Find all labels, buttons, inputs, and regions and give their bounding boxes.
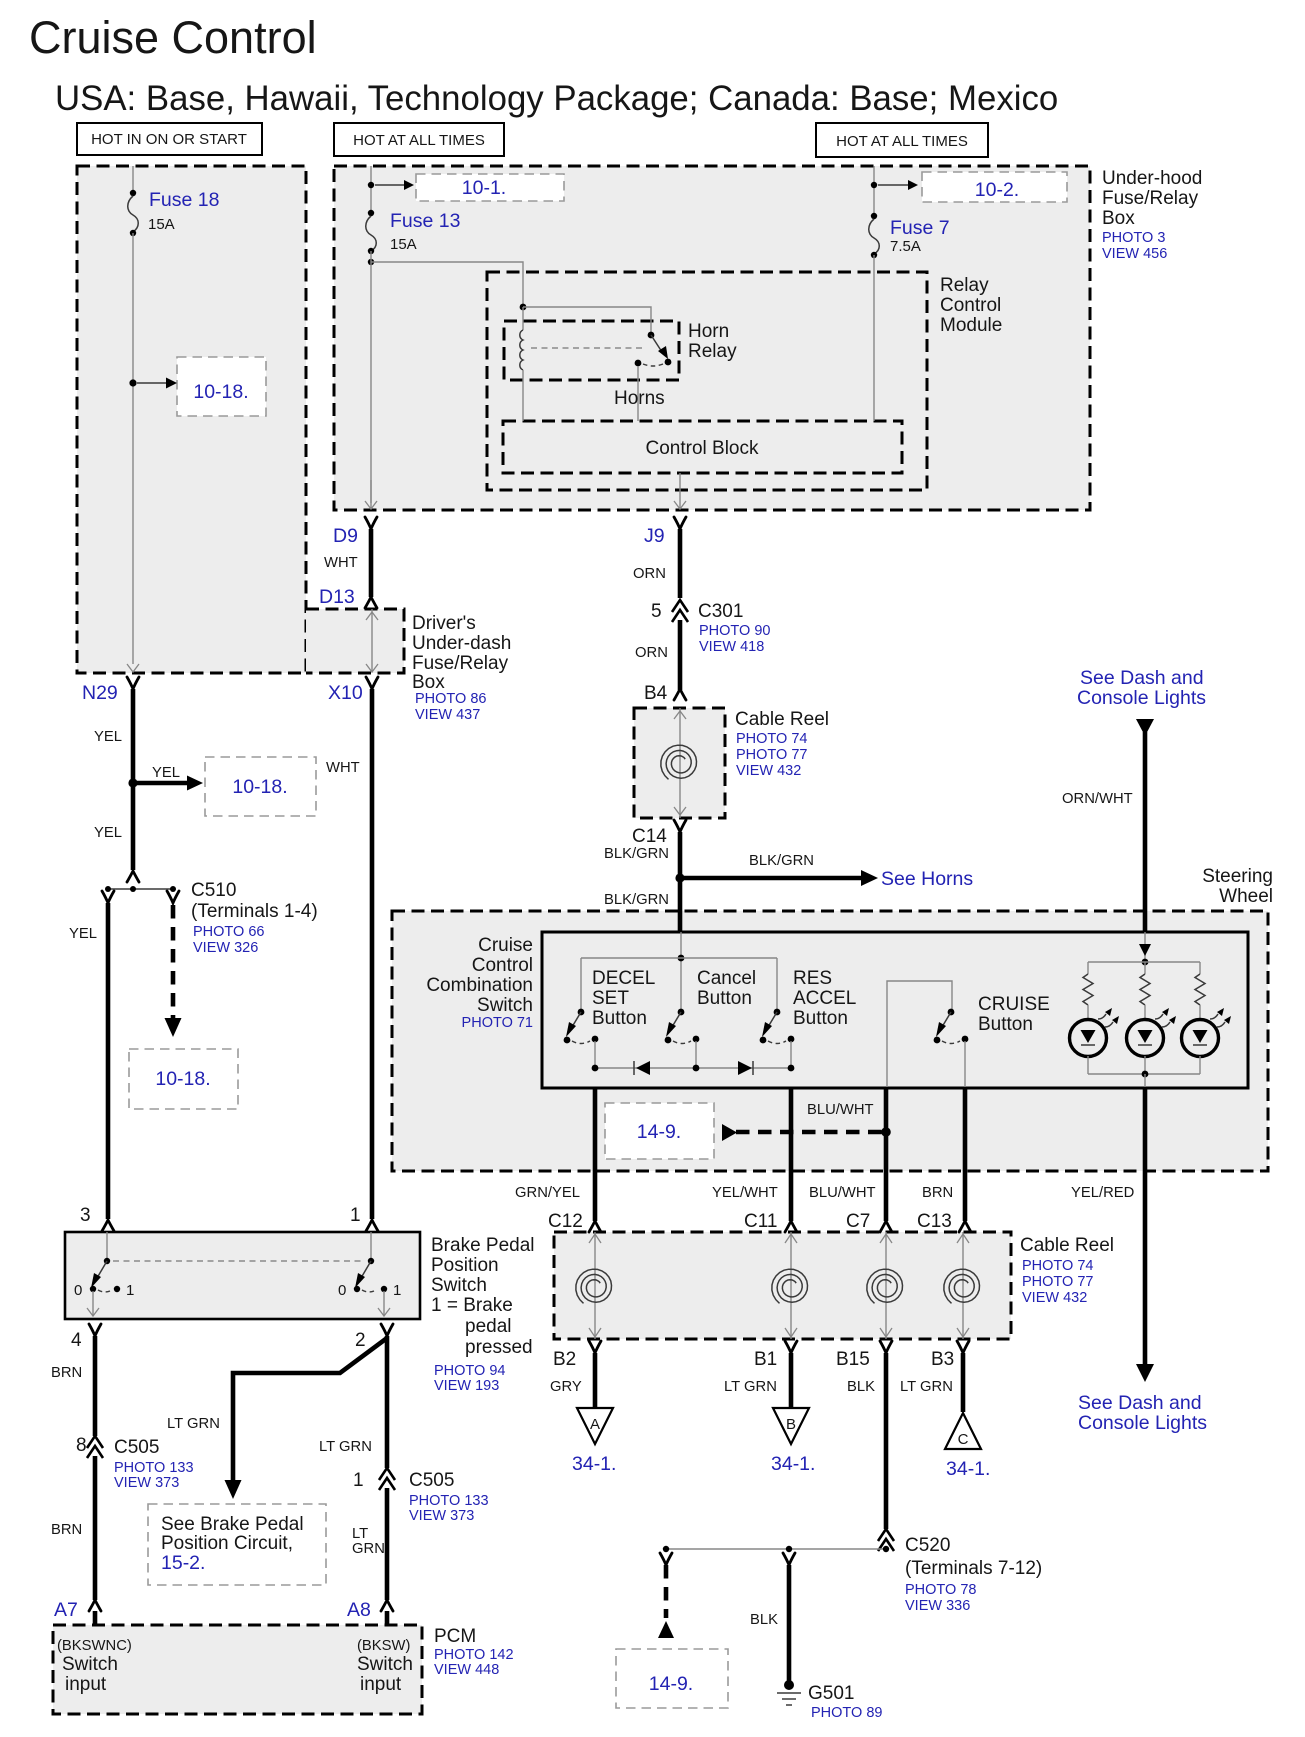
svg-text:Switch: Switch [477,995,533,1016]
label cable reel 1 [735,709,829,779]
svg-text:C520: C520 [905,1535,950,1556]
open arrow N29 exit [127,664,139,672]
svg-text:C505: C505 [409,1470,454,1491]
svg-text:Button: Button [592,1008,647,1029]
svg-text:pressed: pressed [465,1337,533,1358]
destination A [572,1408,616,1475]
node D9 [333,517,377,547]
svg-text:GRN/YEL: GRN/YEL [515,1185,580,1201]
wire 2 branch to brake pedal circuit [167,1338,387,1499]
wire fuse7 to control block [873,255,875,421]
svg-text:Position Circuit,: Position Circuit, [161,1533,293,1554]
wire C12 drop GRN/YEL [515,1088,601,1232]
brake switch pole 1 [338,1232,401,1316]
svg-text:5: 5 [651,601,662,622]
svg-text:PHOTO 3: PHOTO 3 [1102,230,1165,246]
svg-text:Cable Reel: Cable Reel [735,709,829,730]
header box HOT AT ALL TIMES right [816,123,988,157]
cable reel 1 wire [674,708,686,818]
svg-text:15-2.: 15-2. [161,1552,205,1574]
svg-text:Button: Button [697,988,752,1009]
svg-text:VIEW 373: VIEW 373 [114,1475,179,1491]
diode right [738,1061,753,1075]
ref box 14-9 steering [605,1103,714,1159]
arrow see horns [684,853,973,890]
wire B1 LT GRN [724,1353,791,1408]
svg-text:BRN: BRN [51,1522,82,1538]
fuse F13 [366,210,461,254]
relay actuation dashed link [531,347,643,349]
arrow to 10-2 [878,180,918,190]
svg-text:Switch: Switch [357,1654,413,1675]
svg-text:Relay: Relay [940,275,989,296]
svg-text:VIEW 373: VIEW 373 [409,1508,474,1524]
wire B2 GRY [550,1353,595,1408]
svg-text:PHOTO 86: PHOTO 86 [415,691,486,707]
wire into combo switch [678,932,685,1012]
ref box 10-1 [416,174,564,201]
wire C7 drop BLU/WHT [809,1088,892,1232]
svg-text:Control: Control [472,955,533,976]
connector C510 joint [105,871,318,956]
svg-text:Under-hood: Under-hood [1102,168,1202,189]
svg-text:See Horns: See Horns [881,868,973,890]
svg-text:Relay: Relay [688,341,737,362]
svg-text:C12: C12 [548,1211,583,1232]
svg-text:VIEW 326: VIEW 326 [193,940,258,956]
PCM box [53,1625,422,1714]
svg-text:Console Lights: Console Lights [1077,687,1206,709]
svg-text:DECEL: DECEL [592,968,655,989]
svg-text:J9: J9 [644,525,665,547]
svg-text:14-9.: 14-9. [637,1121,681,1143]
svg-text:1: 1 [393,1282,401,1299]
svg-text:Steering: Steering [1202,866,1273,887]
svg-text:C301: C301 [698,601,743,622]
svg-text:B1: B1 [754,1349,777,1370]
svg-text:BLK/GRN: BLK/GRN [604,892,669,908]
svg-text:10-18.: 10-18. [232,776,287,798]
wire fuse18 feed [132,166,134,192]
svg-text:PCM: PCM [434,1626,476,1647]
node 1 entry brake switch [350,1205,378,1231]
svg-text:Driver's: Driver's [412,613,476,634]
wire C14 down [604,832,685,932]
svg-text:C11: C11 [744,1211,777,1232]
wire N29 YEL [94,689,138,870]
control block box [503,421,902,473]
svg-text:B3: B3 [931,1349,954,1370]
svg-text:C: C [958,1431,969,1448]
wire C510-1 YEL to brake switch [69,891,114,1219]
svg-text:BLK/GRN: BLK/GRN [604,846,669,862]
svg-text:LT GRN: LT GRN [900,1379,953,1395]
svg-text:ORN: ORN [633,566,666,582]
switch output bus [592,1041,795,1071]
node B2 [553,1341,601,1370]
svg-text:BLK: BLK [847,1379,875,1395]
svg-text:PHOTO 77: PHOTO 77 [1022,1274,1093,1290]
svg-text:LT: LT [352,1526,368,1542]
cable reel 1 spiral [661,745,697,779]
ground G501 [777,1680,882,1721]
svg-text:PHOTO 77: PHOTO 77 [736,747,807,763]
svg-text:Under-dash: Under-dash [412,633,511,654]
svg-text:10-2.: 10-2. [975,179,1019,201]
svg-text:Horn: Horn [688,321,729,342]
cruise control combination switch box [542,932,1248,1088]
wire D9 exit [365,480,377,509]
svg-text:RES: RES [793,968,832,989]
svg-text:YEL: YEL [152,765,180,781]
svg-text:VIEW 432: VIEW 432 [736,763,801,779]
wire YEL/RED down [1071,1087,1154,1382]
svg-text:VIEW 448: VIEW 448 [434,1662,499,1678]
svg-text:USA: Base, Hawaii, Technology: USA: Base, Hawaii, Technology Package; C… [55,79,1058,118]
svg-text:B4: B4 [644,683,668,704]
svg-text:C13: C13 [917,1211,952,1232]
svg-text:HOT AT ALL TIMES: HOT AT ALL TIMES [836,133,968,150]
label combination switch [426,935,533,1031]
jumper 14-9 BLU/WHT dashed [722,1102,884,1141]
svg-text:input: input [360,1674,402,1695]
svg-text:Cruise: Cruise [478,935,533,956]
svg-text:ACCEL: ACCEL [793,988,856,1009]
label see dash and console lights top [1077,667,1206,709]
svg-text:8: 8 [76,1435,87,1456]
svg-text:Wheel: Wheel [1219,886,1273,907]
svg-text:Module: Module [940,315,1002,336]
svg-text:VIEW 193: VIEW 193 [434,1378,499,1394]
spiral 4 [944,1269,980,1303]
lamp return bus [1088,1056,1200,1087]
svg-text:YEL: YEL [69,926,97,942]
node B3 [931,1341,969,1370]
label cruise button [978,994,1050,1035]
wire to 14-9 dashed [658,1553,674,1638]
destination B [771,1408,815,1475]
node relay feed junction [520,304,527,311]
wire 2 lower [352,1488,387,1600]
svg-text:34-1.: 34-1. [771,1453,815,1475]
svg-text:Fuse 13: Fuse 13 [390,210,460,232]
arrow to 10-18 top [137,378,177,389]
node C14 [604,820,686,862]
node J9 [644,517,686,547]
node D13 [319,586,377,608]
svg-text:PHOTO 142: PHOTO 142 [434,1647,514,1663]
cable reel 2 wire C11-B1 [785,1232,797,1339]
svg-text:pedal: pedal [465,1316,512,1337]
svg-text:(BKSW): (BKSW) [357,1638,411,1654]
svg-text:YEL/WHT: YEL/WHT [712,1185,778,1201]
relay control module box [487,272,927,490]
svg-text:3: 3 [80,1205,91,1226]
svg-text:BLU/WHT: BLU/WHT [807,1102,874,1118]
relay coil [520,307,523,421]
wire C510-4 dashed to 10-18 low [165,891,182,1037]
svg-text:YEL: YEL [94,729,122,745]
svg-text:10-18.: 10-18. [155,1068,210,1090]
brake switch pole 3 [74,1232,134,1316]
spiral 1 [576,1269,612,1303]
LED lamp 3 [1182,1008,1232,1057]
wire junction to relay switch [523,307,651,335]
svg-text:PHOTO 74: PHOTO 74 [736,731,807,747]
ref box see brake pedal position circuit [148,1504,326,1585]
connector C520 [878,1529,1042,1614]
svg-text:YEL/RED: YEL/RED [1071,1185,1134,1201]
svg-text:SET: SET [592,988,629,1009]
svg-text:CRUISE: CRUISE [978,994,1050,1015]
svg-text:BLU/WHT: BLU/WHT [809,1185,876,1201]
cancel switch [665,1009,700,1044]
svg-text:PHOTO 94: PHOTO 94 [434,1363,505,1379]
wire fuse7 feed [871,166,877,215]
svg-text:See Dash and: See Dash and [1078,1392,1202,1414]
destination C [945,1413,990,1480]
wire fuse13 to horn relay [371,262,523,307]
svg-text:15A: 15A [148,216,175,233]
svg-text:PHOTO 74: PHOTO 74 [1022,1258,1093,1274]
node B15 [836,1341,892,1370]
svg-text:ORN/WHT: ORN/WHT [1062,791,1133,807]
svg-text:WHT: WHT [326,760,360,776]
svg-text:WHT: WHT [324,555,358,571]
node B1 [754,1341,797,1370]
header box HOT IN ON OR START [77,123,262,155]
svg-text:PHOTO 90: PHOTO 90 [699,623,770,639]
svg-text:Button: Button [793,1008,848,1029]
ref box 10-2 [922,172,1067,202]
svg-text:Cancel: Cancel [697,968,756,989]
svg-text:PHOTO 66: PHOTO 66 [193,924,264,940]
svg-text:0: 0 [338,1282,346,1299]
lamp feed [1088,932,1200,965]
svg-text:10-1.: 10-1. [462,177,506,199]
svg-text:14-9.: 14-9. [649,1673,693,1695]
svg-text:Switch: Switch [62,1654,118,1675]
wire control block to J9 [674,473,686,509]
node 3 entry brake switch [80,1205,114,1231]
svg-text:4: 4 [71,1330,82,1351]
label under-hood box [1102,168,1202,262]
node X10 [328,677,378,704]
svg-text:Control: Control [940,295,1001,316]
cable reel 2 wire C13-B3 [957,1232,969,1339]
svg-text:X10: X10 [328,682,363,704]
svg-text:1 = Brake: 1 = Brake [431,1295,513,1316]
spiral 3 [867,1269,903,1303]
label steering wheel [1202,866,1273,907]
wire 4 BRN [51,1336,95,1436]
svg-text:Switch: Switch [431,1275,487,1296]
svg-text:VIEW 418: VIEW 418 [699,639,764,655]
horn relay box [504,321,679,380]
svg-text:PHOTO 78: PHOTO 78 [905,1582,976,1598]
cable reel box 2 [554,1232,1011,1339]
label cable reel 2 [1020,1235,1114,1306]
svg-text:A8: A8 [347,1599,371,1621]
svg-text:34-1.: 34-1. [946,1458,990,1480]
svg-text:Fuse 18: Fuse 18 [149,189,219,211]
svg-text:BLK: BLK [750,1612,778,1628]
svg-text:VIEW 432: VIEW 432 [1022,1290,1087,1306]
svg-text:G501: G501 [808,1683,854,1704]
header box HOT AT ALL TIMES left [334,123,504,156]
svg-text:10-18.: 10-18. [193,381,248,403]
wire B3 LT GRN [900,1353,963,1412]
node 2 [355,1324,393,1351]
label horn relay [688,321,737,362]
connector C505 pin 1 [353,1468,489,1524]
svg-text:See Brake Pedal: See Brake Pedal [161,1514,304,1535]
LED lamp 2 [1127,1008,1177,1057]
svg-text:PHOTO 89: PHOTO 89 [811,1705,882,1721]
svg-text:Position: Position [431,1255,499,1276]
wire B15 BLK [847,1353,886,1529]
svg-text:Control Block: Control Block [646,438,759,459]
svg-text:1: 1 [353,1470,364,1491]
svg-text:PHOTO 71: PHOTO 71 [462,1015,533,1031]
label PCM inputs [57,1638,413,1695]
cable reel 2 wire C12-B2 [589,1232,601,1339]
cable reel 2 wire C7-B15 [880,1232,892,1339]
label res accel [793,968,856,1029]
svg-text:input: input [65,1674,107,1695]
svg-text:Brake Pedal: Brake Pedal [431,1235,535,1256]
svg-text:Console Lights: Console Lights [1078,1412,1207,1434]
svg-text:C505: C505 [114,1437,159,1458]
svg-text:HOT IN ON OR START: HOT IN ON OR START [91,131,247,148]
fuse F7 [869,213,950,258]
svg-text:D13: D13 [319,586,355,608]
connector C301 pin 5 [651,600,770,655]
wire C13 drop BRN [917,1088,971,1232]
label driver's box [412,613,511,723]
spiral 2 [772,1269,808,1303]
node A7 [54,1599,101,1625]
ref box 10-18 low [129,1049,238,1109]
svg-text:Cruise Control: Cruise Control [29,12,317,63]
svg-text:BLK/GRN: BLK/GRN [749,853,814,869]
ground bus join [663,1546,889,1552]
decel set switch [564,1009,599,1044]
svg-text:HOT AT ALL TIMES: HOT AT ALL TIMES [353,132,485,149]
svg-text:Fuse/Relay: Fuse/Relay [1102,188,1199,209]
svg-text:0: 0 [74,1282,82,1299]
connector C505 pin 8 [76,1435,194,1491]
svg-text:LT GRN: LT GRN [319,1439,372,1455]
node A8 [347,1599,393,1625]
node N29 [82,677,139,704]
svg-text:BRN: BRN [922,1185,953,1201]
driver's under-dash fuse/relay box [306,609,404,673]
svg-text:B15: B15 [836,1349,870,1370]
svg-text:B2: B2 [553,1349,576,1370]
wire X10 WHT to brake switch [326,689,372,1219]
svg-text:PHOTO 133: PHOTO 133 [409,1493,489,1509]
wire C11 drop YEL/WHT [712,1088,797,1232]
ref box 10-18 top [177,357,266,416]
svg-text:Cable Reel: Cable Reel [1020,1235,1114,1256]
res accel switch [760,1009,795,1044]
steering wheel box [392,911,1268,1171]
svg-text:2: 2 [355,1330,366,1351]
wire to G501 BLK [750,1553,795,1681]
resistor R3 [1195,962,1205,1020]
wire J9 ORN [633,529,680,598]
LED lamp 1 [1070,1008,1120,1057]
wire 4 BRN lower [51,1456,95,1600]
wire D9-D13 WHT [324,529,371,597]
svg-text:7.5A: 7.5A [890,238,921,255]
svg-text:A: A [590,1416,600,1433]
label cancel [697,968,756,1009]
wire fuse13 feed [368,166,374,212]
label PCM [434,1626,514,1678]
svg-text:GRY: GRY [550,1379,582,1395]
svg-text:Box: Box [412,672,445,693]
svg-text:BRN: BRN [51,1365,82,1381]
ref box 14-9 bottom [616,1649,728,1708]
svg-text:Fuse 7: Fuse 7 [890,217,950,239]
svg-text:LT GRN: LT GRN [724,1379,777,1395]
svg-text:VIEW 437: VIEW 437 [415,707,480,723]
svg-text:A7: A7 [54,1599,78,1621]
svg-text:Fuse/Relay: Fuse/Relay [412,653,509,674]
svg-text:C14: C14 [632,826,667,847]
brake switch link dashed [113,1260,365,1262]
label decel set [592,968,655,1029]
svg-text:See Dash and: See Dash and [1080,667,1204,689]
ref box 10-18 mid [205,757,316,816]
arrow to 10-18 mid [136,765,203,791]
svg-text:1: 1 [126,1282,134,1299]
wire C301-B4 ORN [635,620,680,690]
svg-text:C7: C7 [846,1211,870,1232]
svg-text:(Terminals 1-4): (Terminals 1-4) [191,901,318,922]
label brake pedal position switch [431,1235,535,1394]
svg-text:Combination: Combination [426,975,533,996]
wire 2 LT GRN [319,1336,387,1468]
label relay control module [940,275,1002,336]
svg-text:B: B [786,1416,796,1433]
cable reel box 1 [634,708,725,818]
svg-text:D9: D9 [333,525,358,547]
diode left [634,1061,650,1075]
wire through driver's box [366,609,378,672]
resistor R2 [1140,962,1150,1020]
fuse F18 [128,189,220,236]
svg-text:Horns: Horns [614,388,665,409]
svg-text:Box: Box [1102,208,1135,229]
under-hood fuse/relay box [334,166,1090,510]
svg-text:C510: C510 [191,880,236,901]
svg-text:VIEW 336: VIEW 336 [905,1598,970,1614]
wire relay to control block [637,366,639,421]
svg-text:YEL: YEL [94,825,122,841]
svg-text:34-1.: 34-1. [572,1453,616,1475]
svg-text:(Terminals 7-12): (Terminals 7-12) [905,1558,1042,1579]
svg-text:Button: Button [978,1014,1033,1035]
wire fuse18 to N29 [129,233,136,664]
node 4 [71,1324,101,1351]
svg-text:GRN: GRN [352,1541,385,1557]
svg-text:15A: 15A [390,236,417,253]
svg-text:ORN: ORN [635,645,668,661]
horn relay switch [635,332,672,367]
